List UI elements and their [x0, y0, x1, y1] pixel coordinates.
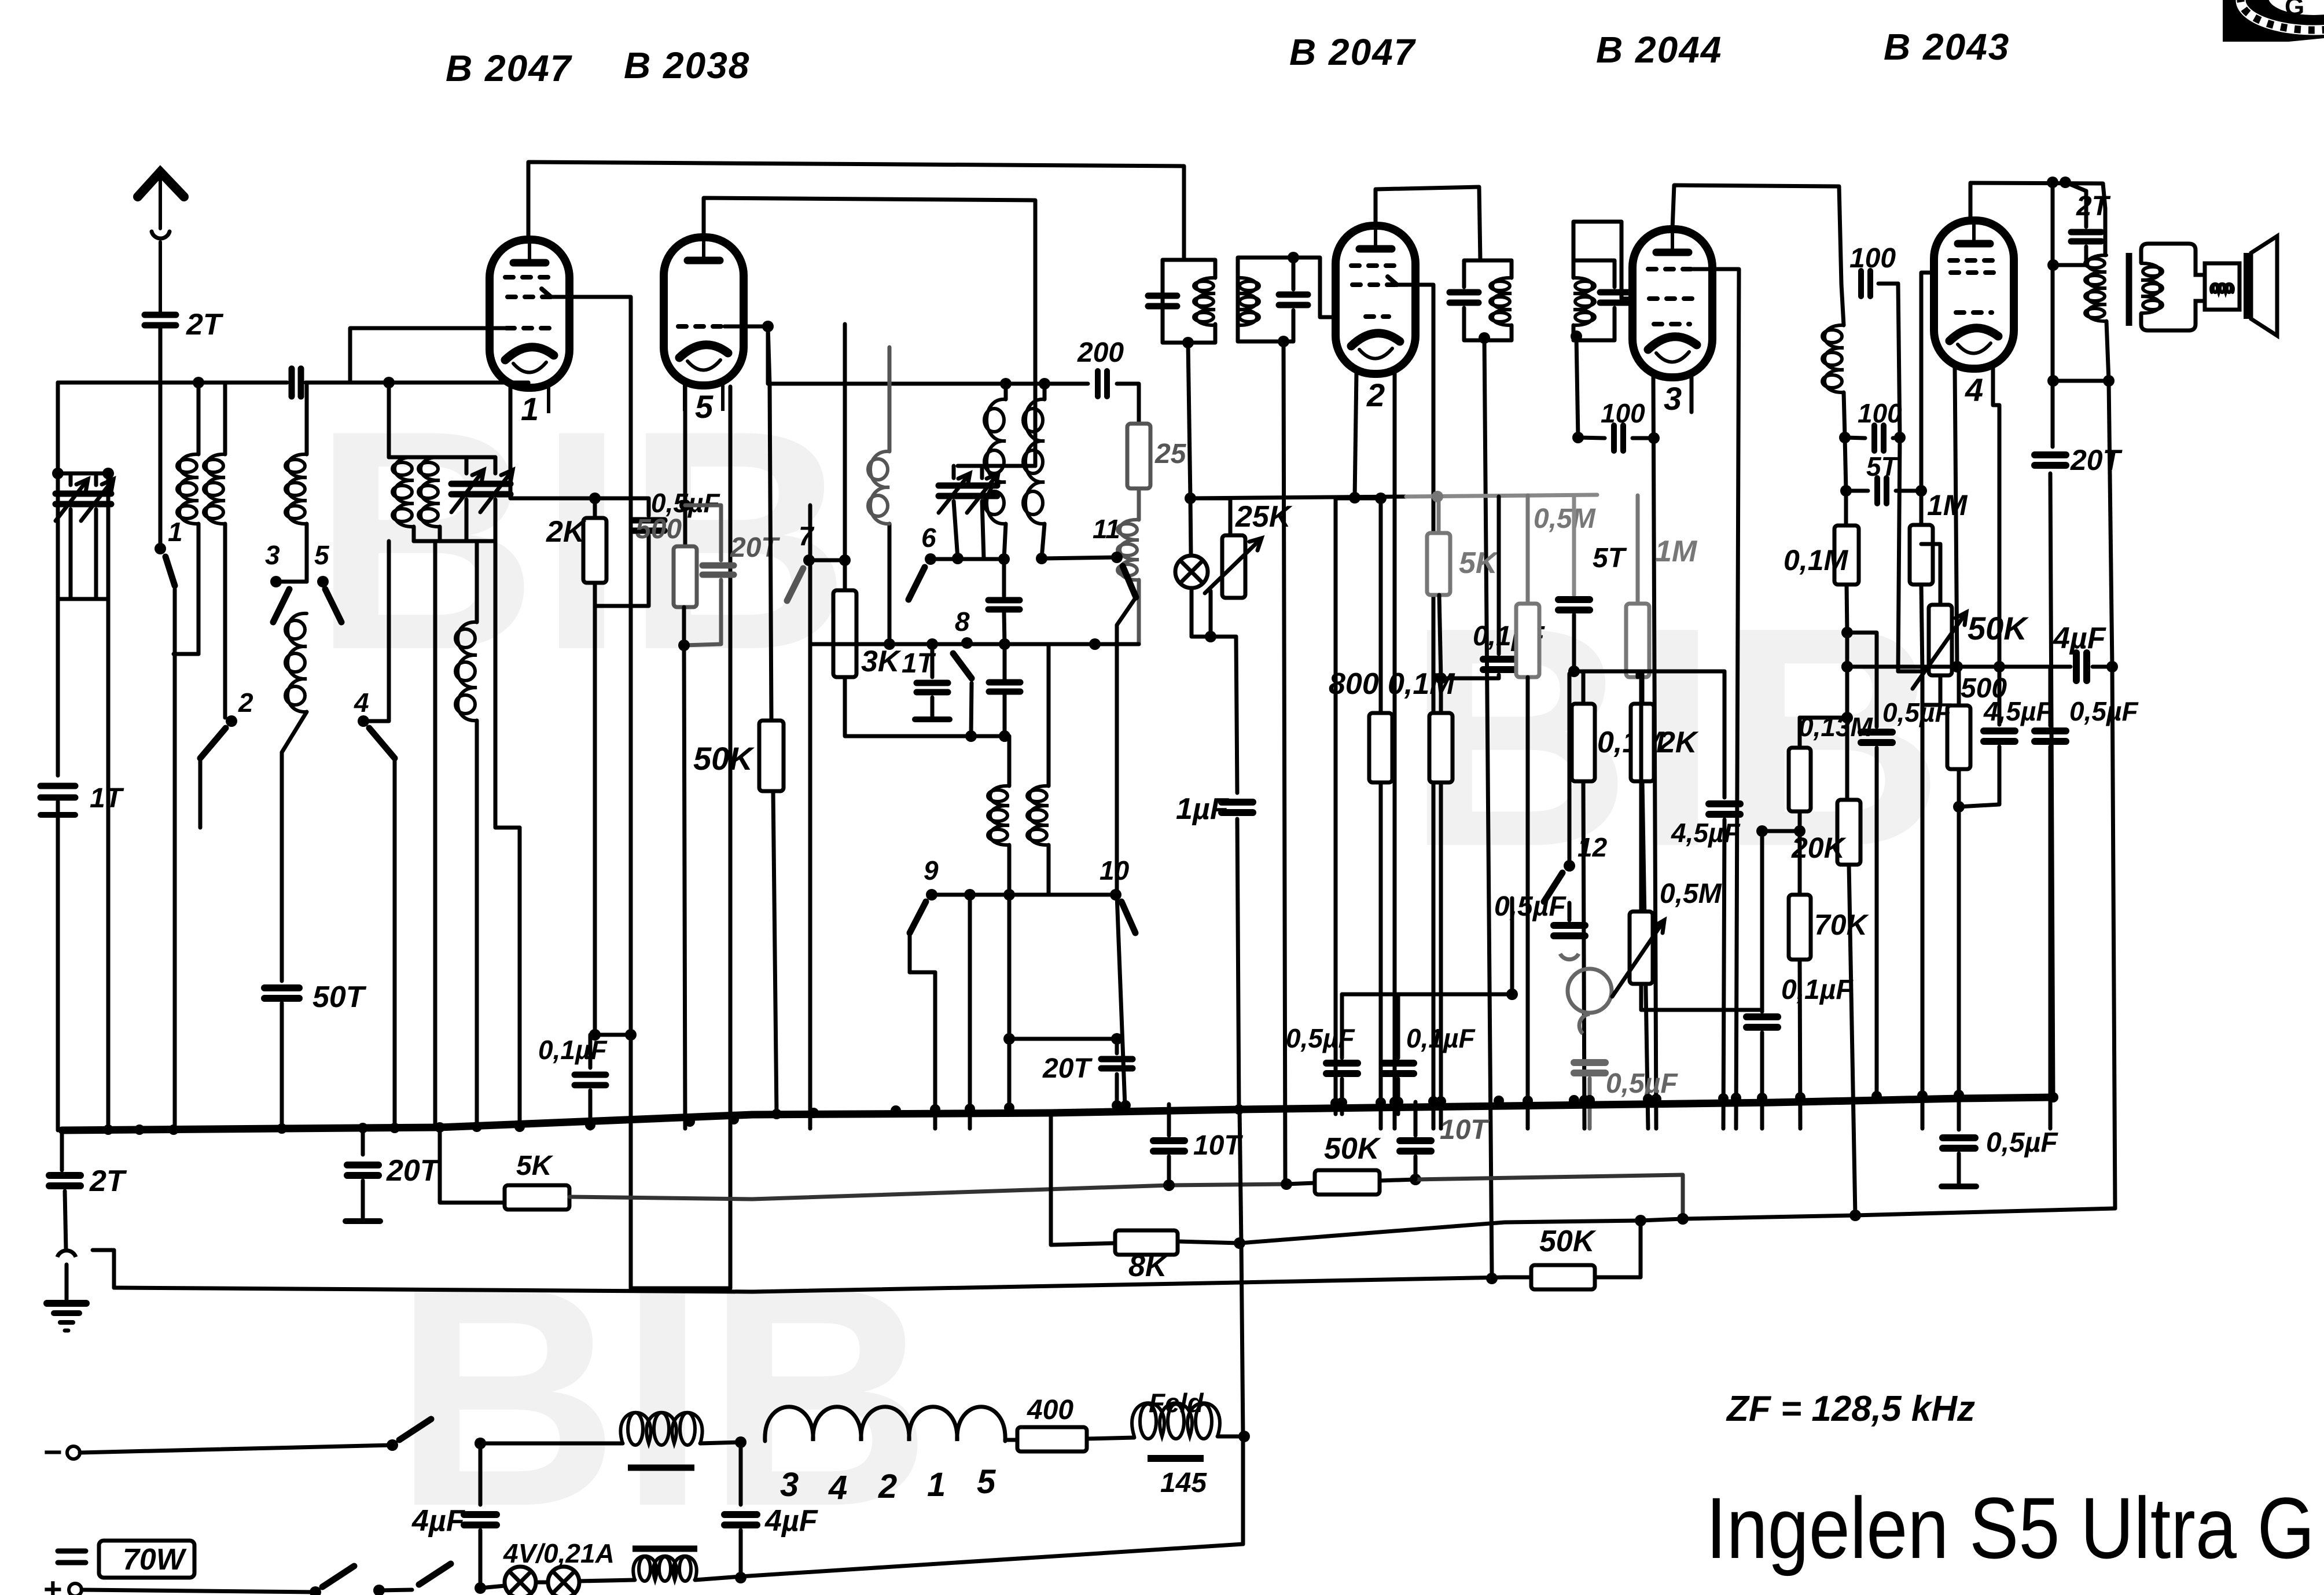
resistor 70K: [1789, 895, 1811, 960]
wire padder mid rail: [971, 734, 1009, 738]
svg-text:0,5M: 0,5M: [1660, 879, 1722, 909]
grid row tube5: [678, 324, 725, 329]
capacitor 20T osc: [703, 565, 734, 575]
wire unit3 top: [1480, 260, 1512, 278]
wire 0.5uF anode bottom: [1875, 748, 1879, 1096]
node wiper join: [1205, 631, 1216, 642]
junction bus aj: [1718, 1093, 1729, 1104]
svg-text:1: 1: [927, 1466, 946, 1504]
wire vert 3206 up: [1854, 1212, 1858, 1215]
wire T3 top feed line: [1672, 185, 1841, 284]
wire coilD2 bottom: [438, 527, 442, 541]
switch lever mains a: [399, 1419, 431, 1440]
wire 5T det bottom: [1572, 615, 1576, 671]
inductor band coil D2: [421, 457, 440, 527]
svg-text:5T: 5T: [1593, 543, 1627, 574]
arrow osc trim2: [967, 473, 998, 513]
wire rail down 824: [475, 541, 479, 622]
speaker: [2248, 236, 2277, 336]
resistor 0.5M: [1516, 604, 1539, 677]
wire vert 1616 link: [910, 971, 935, 975]
svg-text:6: 6: [921, 523, 936, 553]
junction bus n: [808, 1108, 819, 1118]
node T4 line a: [2047, 177, 2058, 188]
resistor 50K osc: [759, 721, 784, 791]
wire tube2 cathode: [1355, 373, 1356, 498]
resistor 0.1M det3: [1572, 704, 1595, 781]
wire lamp link: [536, 1581, 548, 1585]
node sw minus: [387, 1439, 398, 1451]
wire unit3 cap bot: [1464, 308, 1512, 340]
grid row 3 tube3: [1654, 322, 1690, 326]
wire 5T det v: [1572, 495, 1576, 595]
node avc2: [1435, 672, 1447, 684]
wire sw8 down: [971, 683, 972, 736]
svg-text:2: 2: [878, 1468, 897, 1505]
wire vert 1616: [933, 972, 937, 1129]
wire coil F1 top: [1007, 736, 1012, 786]
inductor band coil C low: [288, 613, 307, 712]
svg-text:4µF: 4µF: [764, 1504, 818, 1538]
svg-text:800: 800: [1329, 667, 1379, 701]
svg-text:3K: 3K: [861, 645, 902, 678]
wire coil E down: [475, 721, 479, 1129]
wire c3 stub: [276, 580, 307, 584]
node tube5 grid: [762, 321, 774, 332]
junction bus d: [277, 1123, 287, 1134]
svg-text:Ingelen S5 Ultra G: Ingelen S5 Ultra G: [1706, 1479, 2315, 1576]
wire 0.5uF anode top: [1847, 633, 1877, 727]
wire osc coilB stub: [1043, 384, 1047, 399]
node trafo bottom: [2103, 375, 2115, 387]
node 4uF c: [1994, 661, 2005, 672]
svg-text:5T: 5T: [1866, 451, 1900, 482]
capacitor 20T right: [1101, 1059, 1132, 1068]
resistor 20K: [1837, 800, 1860, 865]
tube V3: [1632, 229, 1712, 377]
resistor 50K agc: [1315, 1170, 1380, 1195]
svg-text:4µF: 4µF: [411, 1504, 465, 1538]
junction bus v: [1330, 1098, 1341, 1108]
potentiometer 0.5M tone: [1630, 912, 1653, 984]
node 100c left: [1572, 432, 1584, 443]
node varbox top: [52, 468, 64, 479]
contact 8: [961, 637, 973, 649]
inductor osc coil F2: [1029, 786, 1049, 845]
inductor output trafo secondary frame: [2141, 244, 2205, 275]
svg-text:3: 3: [1664, 380, 1682, 417]
wire minus line: [80, 1445, 392, 1453]
node IF1 bottom: [1182, 337, 1194, 348]
arrow varcap3: [451, 470, 484, 512]
wire 2K bottom join: [595, 535, 649, 606]
wire unit4 cap top: [1573, 260, 1615, 287]
resistor 3K: [833, 590, 856, 677]
wire unit2 frame: [1236, 278, 1240, 324]
svg-text:B 2043: B 2043: [1884, 26, 2010, 68]
node 5T left: [1840, 485, 1852, 497]
capacitor 10T a: [1153, 1141, 1185, 1151]
junction bus l: [729, 1114, 739, 1124]
switch lever 6: [909, 567, 925, 600]
wire coilC top: [305, 383, 309, 454]
core mains choke: [628, 1465, 694, 1471]
wire 11 tail 2: [1117, 895, 1125, 1105]
wire af choke top: [1841, 284, 1844, 325]
grid row 2 tube2: [1352, 277, 1397, 285]
junction bus ag: [1584, 1095, 1595, 1105]
wire w1 right: [569, 1184, 1286, 1199]
node rail 9b: [1003, 889, 1015, 901]
wire 1537 vert: [888, 524, 892, 644]
capacitor 0.5uF bus: [1943, 1138, 1975, 1148]
wire padder top rail: [810, 642, 1139, 646]
wire tone pot bottom: [1641, 984, 1762, 1010]
wire tube4 right leg: [1993, 367, 1999, 667]
wire 0.5uF top stub: [595, 498, 649, 516]
svg-text:4: 4: [828, 1469, 847, 1506]
wire unit4 top: [1573, 222, 1632, 299]
svg-text:7: 7: [799, 521, 815, 551]
svg-text:100: 100: [1849, 243, 1896, 274]
wire left vertical lower: [56, 815, 60, 1130]
node 4uF d: [2106, 661, 2118, 672]
wire 2K det top: [1641, 671, 1645, 704]
svg-text:50K: 50K: [1324, 1132, 1381, 1166]
wire af choke down: [1844, 392, 1845, 438]
junction bus ad: [1523, 1096, 1533, 1106]
resistor 2K: [583, 518, 606, 583]
wire left vertical mid: [56, 473, 60, 776]
wire padder cap bottom: [1003, 692, 1007, 736]
wire 0.13M link: [1800, 716, 1847, 720]
capacitor 0.1uF if: [1483, 659, 1514, 670]
wire cathode branch down: [593, 606, 597, 1035]
terminal minus: [67, 1446, 80, 1459]
svg-text:100: 100: [1858, 398, 1902, 428]
wire w2 left: [1051, 1113, 1115, 1245]
capacitor 2T ground: [49, 1175, 80, 1186]
resistor 500 osc: [674, 546, 697, 607]
junction bus s: [1112, 1100, 1122, 1111]
inductor osc coil F1: [990, 786, 1009, 845]
capacitor IF1: [1148, 296, 1177, 306]
node 70K top: [1794, 825, 1805, 837]
svg-text:0,1M: 0,1M: [1784, 544, 1849, 576]
wire sw1 down: [173, 589, 177, 1129]
node padder e: [965, 730, 977, 742]
node rail 9a: [964, 889, 976, 901]
variable capacitor padding 1: [451, 484, 481, 494]
svg-text:4,5µF: 4,5µF: [1671, 818, 1741, 848]
wire 3K from H2: [843, 324, 847, 590]
wire coilB1 top: [197, 383, 201, 454]
variable capacitor tuning 2: [81, 494, 111, 504]
junction bus am: [1795, 1092, 1805, 1102]
svg-text:25K: 25K: [1235, 500, 1293, 534]
svg-text:0,5M: 0,5M: [1534, 504, 1596, 534]
contact 6: [925, 553, 936, 565]
svg-text:8: 8: [955, 607, 970, 637]
watermark: [312, 366, 1944, 1571]
wire varcap2 stub: [94, 473, 98, 485]
wire 10T bot: [1167, 1156, 1171, 1185]
wire coilB2 top: [223, 383, 227, 454]
junction bus w: [1337, 1097, 1347, 1108]
resistor 50K b: [1531, 1265, 1595, 1289]
svg-text:−: −: [43, 1434, 62, 1470]
wire sw2 tail: [198, 758, 203, 828]
wire node-A horizontal: [58, 381, 287, 385]
node sw minus b: [475, 1438, 486, 1449]
node w1 b: [1410, 1174, 1421, 1185]
manufacturer logo: [2223, 0, 2324, 42]
node 2T join: [2047, 259, 2059, 271]
junction bus m: [771, 1109, 782, 1119]
node varbox tr: [102, 468, 114, 479]
inductor osc coil upper A: [987, 399, 1006, 524]
node 5T right: [1915, 485, 1927, 497]
svg-text:3: 3: [265, 540, 280, 570]
wire field to 400: [1005, 1438, 1017, 1442]
wire 100pF right: [1878, 282, 1898, 286]
junction bus ao: [1917, 1090, 1928, 1101]
capacitor 4uF coupling: [2076, 653, 2087, 681]
junction bus aq: [2048, 1092, 2058, 1102]
wire 20T branch top: [685, 505, 721, 560]
wire osc coil down: [1095, 580, 1139, 644]
capacitor 20T b: [2035, 455, 2066, 465]
variable capacitor padding 2: [480, 484, 510, 494]
svg-text:11: 11: [1093, 514, 1120, 544]
wire 1M grid bot: [1921, 585, 1922, 1129]
junction bus z: [1393, 1097, 1403, 1107]
wire 2K det bottom: [1642, 781, 1648, 1129]
inductor mains choke: [620, 1413, 702, 1443]
svg-text:G: G: [2285, 0, 2304, 21]
wire cap A stub: [1002, 559, 1006, 596]
svg-text:0,1µF: 0,1µF: [538, 1035, 608, 1065]
tube V1: [490, 240, 569, 388]
capacitor 4uF psu b: [725, 1515, 757, 1525]
node unit3 bottom: [1479, 332, 1490, 344]
wire T4 grid left: [1921, 273, 1935, 491]
node padder c: [999, 638, 1010, 650]
core Feld: [1148, 1455, 1204, 1462]
node avc caps: [1506, 988, 1518, 1000]
node 20T a: [1003, 1033, 1015, 1045]
coupling arc ground: [57, 1251, 76, 1257]
resistor 1M grid: [1910, 525, 1933, 585]
arrow varcap4: [480, 470, 513, 512]
wire branch to 0.5uF line: [2051, 182, 2055, 447]
node rail11 a: [1036, 553, 1047, 564]
junction bus ac: [1494, 1096, 1504, 1106]
capacitor 2T antenna: [145, 315, 176, 325]
svg-text:5: 5: [695, 388, 714, 425]
wire 200 to 25 resistor: [1117, 384, 1139, 424]
junction bus x: [1376, 1097, 1386, 1108]
wire padder cap top: [1003, 644, 1007, 682]
wire varcap rail: [958, 464, 1035, 468]
wire unit3 cap top: [1464, 260, 1480, 287]
wire tube3 grid2 right: [1693, 269, 1739, 1129]
wire 0.1uF tone top: [1760, 831, 1764, 1012]
wire w2 vert 2142: [1240, 1109, 1243, 1436]
wire minus to choke: [480, 1442, 623, 1446]
node field left: [735, 1436, 747, 1448]
wire A to tube1 wall: [527, 383, 531, 387]
resistor 400: [1017, 1427, 1087, 1451]
wire 1uF down: [1237, 819, 1239, 1110]
potentiometer 25K: [1222, 535, 1245, 598]
wire tube3 right leg: [1690, 377, 1694, 412]
svg-text:0,1M: 0,1M: [1388, 667, 1455, 701]
capacitor 1T padder: [917, 683, 948, 692]
junction bus p: [930, 1104, 940, 1115]
tube V1 region: [0, 0, 1, 1]
node 10T a: [1163, 1179, 1175, 1191]
capacitor 0.5uF avc: [1326, 1063, 1358, 1074]
wire coilD1 bottom: [412, 527, 416, 541]
svg-text:5K: 5K: [1459, 546, 1499, 580]
wire 0.5M top: [1526, 495, 1530, 604]
resistor 0.1M avc2: [1429, 713, 1452, 782]
arrow 25K: [1205, 538, 1262, 593]
wire 50T down: [280, 1003, 284, 1129]
contact 9: [926, 889, 937, 901]
svg-text:B 2038: B 2038: [624, 45, 750, 86]
svg-text:50K: 50K: [693, 740, 755, 777]
wire 20T rail: [1007, 895, 1012, 1107]
inductor IF4: [1573, 278, 1593, 325]
wire 4uF psu a v: [479, 1443, 483, 1505]
wire vc4 bottom: [494, 499, 498, 541]
inductor band coil C: [288, 454, 307, 524]
capacitor 20T bus: [347, 1165, 378, 1175]
wire contacts rail 6: [931, 557, 1004, 561]
wire 70K v: [1798, 811, 1802, 895]
svg-text:9: 9: [924, 855, 939, 885]
wire osc coilA stub: [1004, 384, 1008, 399]
power box 70W: [99, 1541, 194, 1578]
wire c7 stub: [809, 558, 845, 563]
svg-text:2K: 2K: [546, 515, 587, 549]
wire 20T bus bot: [361, 1181, 365, 1218]
node 4uF b: [1951, 661, 1963, 672]
inductor IF2 secondary: [1238, 278, 1257, 325]
svg-text:BIB: BIB: [394, 1222, 932, 1571]
junction bus t: [1120, 1100, 1131, 1111]
resistor 800: [1369, 713, 1392, 782]
wire 1M det2 bottom: [1636, 671, 1640, 677]
node osc coil a: [1000, 378, 1012, 389]
svg-text:1M: 1M: [1655, 535, 1698, 568]
node cathode-2K: [589, 493, 601, 504]
junction bus a: [103, 1124, 113, 1135]
wire 2T to arc: [65, 1191, 66, 1250]
node unit2 top: [1288, 252, 1299, 263]
svg-text:4µF: 4µF: [2053, 622, 2106, 655]
wire 0.5uF bus stub: [1957, 1097, 1961, 1130]
wire antenna down: [159, 383, 163, 549]
wire 11 tail: [1117, 597, 1136, 895]
junction bus b: [134, 1124, 145, 1135]
junction bus q: [965, 1104, 975, 1114]
node rail6 b: [998, 553, 1010, 565]
svg-text:20T: 20T: [386, 1154, 441, 1188]
grid row 3 tube4: [1956, 310, 1992, 315]
variable capacitor tuning 1: [56, 494, 86, 504]
grid row 1 tube2: [1351, 263, 1396, 268]
wire 0.1uF g2 bot: [589, 1090, 593, 1129]
wire 5K if bottom: [1439, 595, 1441, 678]
contact 10: [1110, 889, 1121, 901]
node 100b left: [1839, 432, 1851, 443]
resistor 0.13M: [1789, 748, 1811, 811]
wire 800 bottom: [1379, 782, 1383, 1129]
capacitor 5T det: [1558, 600, 1590, 610]
wire unit2 cap bot: [1238, 310, 1293, 341]
wire choke to field: [700, 1442, 741, 1443]
wire pot top: [1921, 544, 1940, 605]
transformer core: [2126, 253, 2132, 326]
wire 4.5uF bot: [1959, 747, 1999, 807]
wire 100c left w: [1578, 438, 1605, 438]
svg-text:Feld: Feld: [1149, 1388, 1204, 1418]
wire unit1 frame: [1163, 260, 1215, 343]
node rail6 a: [952, 553, 964, 564]
inductor IF3: [1492, 278, 1512, 325]
svg-text:10T: 10T: [1440, 1115, 1490, 1145]
wire osc coilA down: [1004, 524, 1006, 559]
inductor output trafo primary: [2087, 255, 2106, 321]
wire 0.1M af bot: [1847, 585, 1847, 633]
node T4 line b: [2060, 177, 2071, 188]
wire 0.5uF avc top: [1340, 994, 1344, 1058]
svg-text:5: 5: [977, 1463, 996, 1501]
junction bus y: [1389, 1097, 1400, 1107]
wire 1M grid v: [1919, 491, 1924, 525]
node sw plus a: [310, 1586, 321, 1595]
svg-text:0,5µF: 0,5µF: [2069, 696, 2139, 726]
terminal plus: [69, 1583, 82, 1595]
svg-text:0,5µF: 0,5µF: [1606, 1068, 1678, 1099]
capacitor 10T b: [1400, 1141, 1431, 1151]
svg-text:B 2044: B 2044: [1596, 29, 1722, 71]
node 20T b: [1111, 1033, 1123, 1045]
wire 800 pi2: [1334, 498, 1338, 1114]
node sw plus b: [373, 1585, 385, 1595]
junction bus ap: [1954, 1090, 1964, 1100]
wire tube2 right leg: [1393, 373, 1397, 1129]
arrow tone pot: [1612, 920, 1664, 997]
switch lever 11: [1123, 566, 1136, 597]
wire to 500 res: [683, 505, 687, 546]
wire x3192 mid: [1845, 633, 1849, 800]
junction bus af: [1579, 1095, 1590, 1105]
wire vc3 stub: [465, 457, 469, 473]
wire avc caps rail: [1342, 993, 1512, 997]
grid row 3 tube1: [506, 326, 550, 330]
wire w3 left: [114, 1277, 1531, 1292]
tube V2: [1336, 226, 1415, 374]
junction bus ak: [1731, 1093, 1741, 1103]
junction bus f: [389, 1123, 400, 1133]
svg-text:0,1µF: 0,1µF: [1406, 1023, 1476, 1053]
contact 1: [155, 543, 166, 554]
wire unit4 cap bot: [1573, 308, 1615, 340]
